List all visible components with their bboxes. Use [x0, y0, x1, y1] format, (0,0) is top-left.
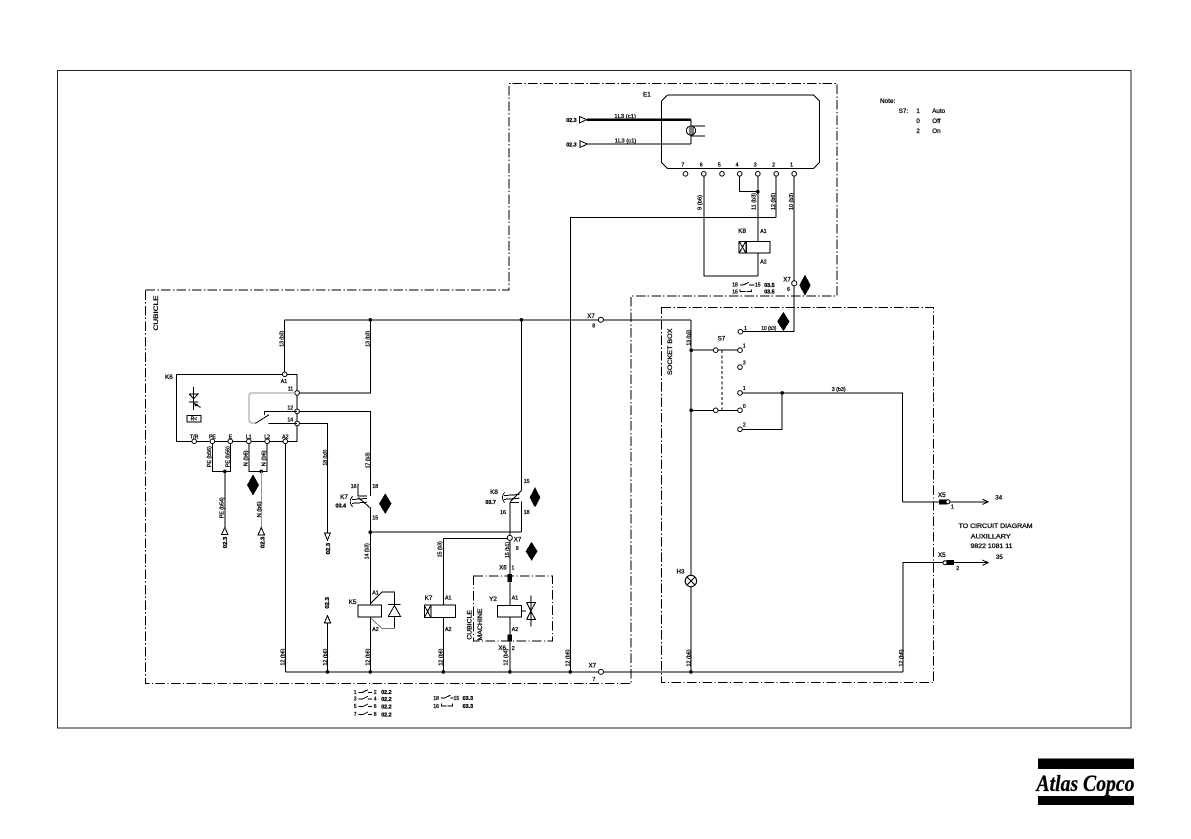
- svg-text:02.2: 02.2: [381, 705, 392, 711]
- svg-text:A1: A1: [281, 379, 287, 385]
- svg-text:15 (b3): 15 (b3): [437, 541, 443, 557]
- diamond marker near K8 contact: [530, 487, 541, 508]
- svg-text:9822 1081 11: 9822 1081 11: [971, 543, 1013, 550]
- svg-text:12 (b6): 12 (b6): [771, 193, 777, 210]
- svg-text:2: 2: [743, 422, 746, 428]
- svg-text:18: 18: [524, 510, 530, 516]
- svg-text:X7: X7: [587, 313, 595, 320]
- svg-text:6: 6: [700, 162, 703, 168]
- svg-text:Atlas Copco: Atlas Copco: [1035, 771, 1135, 797]
- svg-text:Off: Off: [932, 118, 940, 125]
- svg-text:02.3: 02.3: [566, 118, 577, 124]
- svg-text:34: 34: [995, 495, 1002, 502]
- svg-text:T/R: T/R: [190, 435, 199, 441]
- svg-text:16: 16: [500, 510, 506, 516]
- svg-text:4: 4: [374, 697, 377, 703]
- contact cross-reference table K7 (03.3): [433, 695, 473, 710]
- wire 9 (b6) pin6 to K8 A2: [698, 176, 758, 276]
- svg-text:A2: A2: [445, 627, 451, 633]
- svg-text:12: 12: [287, 405, 293, 411]
- svg-text:3: 3: [354, 697, 357, 703]
- S7 contact 3: [738, 361, 746, 370]
- svg-text:02.3: 02.3: [566, 143, 577, 149]
- svg-text:18: 18: [732, 283, 738, 289]
- svg-text:2: 2: [374, 690, 377, 696]
- svg-text:02.2: 02.2: [381, 697, 392, 703]
- svg-text:MACHINE: MACHINE: [478, 609, 484, 641]
- K8 contact cross-reference 16 03.5: [732, 289, 774, 295]
- bottom rail 12 (b6): [285, 670, 903, 674]
- suppressor diode across K5: [371, 592, 401, 628]
- svg-text:02.3: 02.3: [326, 543, 332, 555]
- wire 3 (b3) S7 to X5:1: [742, 387, 902, 502]
- wire K8:16 to X7:9: [509, 502, 511, 535]
- terminal X7 pin 7: [589, 663, 604, 683]
- svg-text:Note:: Note:: [880, 98, 895, 105]
- S7 contact 2: [738, 422, 746, 431]
- diamond marker near N line: [247, 474, 259, 495]
- svg-text:K8: K8: [490, 489, 498, 496]
- svg-text:9: 9: [516, 546, 519, 552]
- svg-text:1: 1: [916, 108, 920, 115]
- svg-text:A2: A2: [760, 260, 766, 266]
- svg-text:PE (b54): PE (b54): [219, 497, 225, 518]
- svg-text:TO CIRCUIT DIAGRAM: TO CIRCUIT DIAGRAM: [959, 523, 1033, 530]
- svg-text:1: 1: [790, 162, 793, 168]
- svg-text:5: 5: [354, 704, 357, 710]
- valve symbol at Y2: [521, 595, 535, 626]
- svg-text:4: 4: [736, 162, 739, 168]
- svg-text:CUBICLE: CUBICLE: [467, 610, 473, 640]
- svg-text:N (b6): N (b6): [262, 450, 268, 466]
- svg-text:A1: A1: [760, 229, 766, 235]
- svg-text:10 (b3): 10 (b3): [789, 193, 795, 210]
- junction node K7-15: [369, 530, 373, 534]
- wire 12 (b6) K7 A2 to rail: [438, 618, 444, 672]
- svg-text:X5: X5: [938, 492, 946, 499]
- terminal X6 pin 1: [499, 565, 514, 582]
- svg-text:12 (b6): 12 (b6): [687, 649, 693, 666]
- svg-text:A1: A1: [445, 595, 451, 601]
- diamond marker at 10 (b3) corner: [777, 312, 790, 331]
- svg-text:E: E: [229, 435, 233, 441]
- contact K8 (time delay changeover): [485, 479, 529, 516]
- wire N (b6) pair to N terminal: [243, 444, 267, 528]
- svg-text:X7: X7: [783, 277, 791, 284]
- E1 pins 7 6 5 4 3 2 1: [681, 162, 796, 176]
- S7 contact 1 (lower): [738, 386, 746, 395]
- contact cross-reference table K5 (02.2): [354, 690, 392, 719]
- wire H3 to rail: [687, 587, 693, 672]
- svg-text:Auto: Auto: [932, 108, 945, 115]
- svg-text:03.7: 03.7: [485, 500, 496, 506]
- S7 pole row upper: [689, 343, 746, 352]
- svg-text:13 (b3): 13 (b3): [686, 329, 692, 345]
- svg-text:8: 8: [374, 712, 377, 718]
- CUBICLE MACHINE label: [467, 609, 484, 641]
- svg-text:0: 0: [743, 404, 746, 410]
- svg-text:16: 16: [732, 289, 738, 295]
- svg-text:K6: K6: [165, 374, 173, 381]
- svg-text:E1: E1: [643, 91, 651, 98]
- svg-text:1: 1: [512, 566, 515, 572]
- svg-text:12 (b6): 12 (b6): [899, 649, 905, 666]
- svg-text:9 (b6): 9 (b6): [698, 195, 704, 210]
- wire Y2 A2 to X6:2: [509, 617, 511, 635]
- relay coil K8: [738, 228, 770, 276]
- svg-text:1: 1: [743, 343, 746, 349]
- svg-text:On: On: [932, 128, 941, 135]
- sheet-ref arrow 02.3 (1L3 bottom): [566, 141, 587, 149]
- wire 12 (b6) jog to left rail: [565, 218, 776, 672]
- svg-text:Y2: Y2: [489, 596, 497, 603]
- svg-text:03.5: 03.5: [764, 283, 775, 289]
- svg-text:17 (b3): 17 (b3): [365, 452, 371, 468]
- svg-text:7: 7: [593, 677, 596, 683]
- svg-text:03.3: 03.3: [463, 696, 474, 702]
- svg-text:02.3: 02.3: [325, 597, 331, 609]
- svg-text:12 (b4): 12 (b4): [504, 648, 510, 665]
- svg-text:K7: K7: [340, 494, 348, 501]
- svg-text:10 (b3): 10 (b3): [761, 326, 776, 332]
- wire 13 (b3) riser to K6 pin11: [299, 318, 372, 393]
- wire 15 (b3) X7:9 to K7 A1: [437, 539, 507, 606]
- wire 11 (b3) pin3 to K8 A1: [752, 176, 758, 241]
- CUBICLE region dash-dot outline: [146, 84, 837, 684]
- svg-text:18 (b3): 18 (b3): [323, 449, 329, 465]
- relay K6 body: [165, 372, 299, 441]
- svg-text:6: 6: [374, 704, 377, 710]
- svg-text:02.3: 02.3: [223, 537, 229, 549]
- svg-text:12 (b6): 12 (b6): [565, 649, 571, 666]
- svg-text:7: 7: [681, 162, 684, 168]
- SOCKET BOX dash-dot outline: [662, 308, 934, 683]
- svg-text:14 (b3): 14 (b3): [364, 543, 370, 559]
- svg-text:1: 1: [744, 326, 747, 332]
- wire S7 contact2 branch: [742, 393, 782, 429]
- border frame: [58, 71, 1132, 729]
- svg-text:18: 18: [372, 484, 378, 490]
- svg-text:AUXILLARY: AUXILLARY: [971, 534, 1012, 541]
- svg-text:16: 16: [433, 704, 439, 710]
- wire 15 (b1) X7:9 to X6:1: [505, 540, 511, 574]
- svg-text:12 (b6): 12 (b6): [365, 648, 371, 665]
- svg-text:12 (b6): 12 (b6): [438, 648, 444, 665]
- note text block: [880, 98, 946, 135]
- S7 pole row lower: [689, 404, 746, 413]
- terminal X6 pin 2: [498, 635, 514, 652]
- K6 internal sensor diode: [189, 387, 201, 410]
- svg-text:1L3 (c1): 1L3 (c1): [615, 138, 637, 144]
- svg-text:2: 2: [956, 566, 959, 572]
- svg-text:A2: A2: [282, 435, 288, 441]
- sheet-ref arrow 02.3 (1L3 top): [566, 117, 587, 125]
- CUBICLE region label: [153, 296, 160, 331]
- svg-text:16: 16: [351, 484, 357, 490]
- svg-text:A2: A2: [372, 627, 378, 633]
- lamp H3: [677, 569, 697, 587]
- sheet-ref arrow 02.3 (18 b3): [325, 533, 333, 555]
- svg-text:11 (b3): 11 (b3): [752, 193, 758, 210]
- svg-text:A1: A1: [512, 596, 518, 602]
- svg-text:2: 2: [512, 646, 515, 652]
- wire 12 (b6) pin2 down: [771, 176, 777, 217]
- svg-text:X6: X6: [499, 565, 507, 572]
- svg-text:13 (b3): 13 (b3): [365, 331, 371, 347]
- svg-text:1: 1: [743, 386, 746, 392]
- wire K7:15 to K8:18: [370, 531, 521, 533]
- terminal X7 pin 8: [587, 313, 603, 329]
- wire PE (b56) pair to PE (b54) terminal: [207, 444, 231, 528]
- CUBICLE MACHINE dash-dot outline: [473, 576, 552, 641]
- diamond marker at X7:9: [526, 542, 538, 561]
- wire 15 (b3) K8 common riser: [520, 318, 524, 491]
- svg-text:02.2: 02.2: [381, 690, 392, 696]
- diamond marker at X7:6: [799, 275, 811, 296]
- wire 17 (b3) K6 pin12 to K7 contact: [299, 411, 371, 496]
- S7 mechanical link (dashed): [721, 350, 723, 410]
- S7 contact 1 (top): [738, 326, 747, 334]
- wire 1L3 (c1) bottom: [588, 138, 692, 144]
- svg-text:15: 15: [524, 479, 530, 485]
- svg-text:3 (b3): 3 (b3): [832, 387, 846, 393]
- sheet-ref arrow 02.3 (rail up): [323, 597, 331, 672]
- sheet-ref arrow 02.3 (PE): [222, 527, 230, 548]
- svg-text:3: 3: [754, 162, 757, 168]
- svg-text:6: 6: [787, 287, 790, 293]
- svg-text:7: 7: [354, 712, 357, 718]
- relay coil K7: [424, 595, 455, 633]
- svg-text:S7: S7: [718, 335, 726, 342]
- svg-text:X7: X7: [589, 663, 597, 670]
- svg-text:X5: X5: [938, 552, 946, 559]
- svg-text:8: 8: [592, 323, 595, 329]
- svg-text:0: 0: [916, 118, 920, 125]
- svg-text:03.5: 03.5: [764, 290, 775, 296]
- svg-text:N (b6): N (b6): [257, 501, 263, 517]
- K8 contact cross-reference 18-15 03.5: [732, 282, 774, 289]
- svg-text:H3: H3: [677, 569, 685, 576]
- svg-text:1L3 (c1): 1L3 (c1): [614, 114, 636, 120]
- svg-text:03.4: 03.4: [336, 504, 347, 510]
- K6 bottom pins T/R PE E L1 L2 A2: [190, 435, 289, 444]
- svg-text:L1: L1: [246, 435, 252, 441]
- glow plug element E1 internal: [686, 120, 705, 144]
- svg-text:PE (b56): PE (b56): [207, 446, 213, 467]
- terminal X7 pin 9: [507, 535, 522, 551]
- wire 10 (b3) pin1 to X7:6 and S7: [743, 176, 795, 332]
- svg-text:18: 18: [433, 696, 439, 702]
- svg-text:PE (b56): PE (b56): [225, 446, 231, 467]
- label E1: [643, 91, 651, 98]
- svg-text:S7:: S7:: [899, 108, 909, 115]
- wire 13 (b3) riser to K6 A1: [279, 320, 285, 375]
- svg-text:14: 14: [287, 418, 293, 424]
- wire K8:18 drop: [520, 502, 522, 533]
- wire X6:1 to Y2 A1: [509, 581, 511, 605]
- svg-text:2: 2: [916, 128, 920, 135]
- contact K7 (time delay changeover): [336, 484, 379, 533]
- terminal X7 pin 6: [783, 277, 796, 293]
- diamond marker near K7 contact: [379, 493, 392, 514]
- svg-text:15: 15: [454, 696, 460, 702]
- controller E1 outline: [661, 95, 819, 169]
- text TO CIRCUIT DIAGRAM block: [959, 523, 1033, 550]
- svg-text:12 (b6): 12 (b6): [323, 648, 329, 665]
- svg-text:K5: K5: [349, 599, 357, 606]
- sheet-ref arrow 02.3 (N): [258, 528, 266, 549]
- wire pin4 to pin3 bridge: [740, 176, 760, 193]
- svg-text:5: 5: [718, 162, 721, 168]
- svg-text:35: 35: [996, 554, 1003, 561]
- svg-text:N (b6): N (b6): [243, 450, 249, 466]
- svg-text:02.3: 02.3: [260, 537, 266, 549]
- svg-text:2: 2: [772, 162, 775, 168]
- svg-text:12 (b6): 12 (b6): [280, 648, 286, 665]
- switch S7 label: [718, 335, 726, 342]
- wire 14 (b3) to K5 A1: [364, 532, 370, 605]
- svg-text:K7: K7: [425, 595, 433, 602]
- svg-text:3: 3: [743, 361, 746, 367]
- svg-text:15: 15: [372, 516, 378, 522]
- svg-text:R<: R<: [191, 417, 198, 423]
- svg-text:1: 1: [354, 690, 357, 696]
- wire 1L3 (c1) top (thick): [587, 114, 691, 120]
- svg-text:A2: A2: [512, 627, 518, 633]
- svg-text:L2: L2: [264, 435, 270, 441]
- wire 13 (b3) horizontal bus: [285, 319, 692, 321]
- svg-text:15 (b1): 15 (b1): [505, 542, 511, 558]
- svg-text:03.3: 03.3: [463, 704, 474, 710]
- solenoid coil Y2: [489, 596, 521, 633]
- wire 12 (b4) X6:2 to rail: [504, 641, 510, 672]
- svg-text:K8: K8: [738, 228, 746, 235]
- terminal X5 pin 1 with off-sheet arrow 34: [903, 492, 1003, 510]
- K6 internal level detector box R<: [187, 415, 201, 422]
- SOCKET BOX label: [667, 328, 674, 375]
- svg-text:15: 15: [755, 283, 761, 289]
- terminal X5 pin 2 with off-sheet arrow 35: [899, 552, 1003, 672]
- svg-text:X7: X7: [514, 537, 522, 544]
- svg-text:1: 1: [951, 504, 954, 510]
- wire 13 (b3) socket box feed: [686, 320, 692, 576]
- svg-text:SOCKET BOX: SOCKET BOX: [667, 328, 674, 375]
- svg-text:13 (b3): 13 (b3): [279, 331, 285, 347]
- svg-text:CUBICLE: CUBICLE: [153, 296, 160, 331]
- wire 12 (b6) K6 A2 to bottom rail: [280, 444, 286, 672]
- wire 18 (b3) K6 pin14 to 02.3 arrow: [299, 424, 329, 533]
- relay coil K5: [349, 591, 382, 634]
- K6 internal contact (grey arm): [249, 393, 297, 424]
- wire 12 (b6) K5 A2 to rail: [365, 617, 371, 672]
- svg-text:PE: PE: [209, 435, 216, 441]
- Atlas Copco logo: [1035, 759, 1135, 806]
- svg-text:11: 11: [288, 387, 293, 393]
- svg-text:02.2: 02.2: [381, 713, 392, 719]
